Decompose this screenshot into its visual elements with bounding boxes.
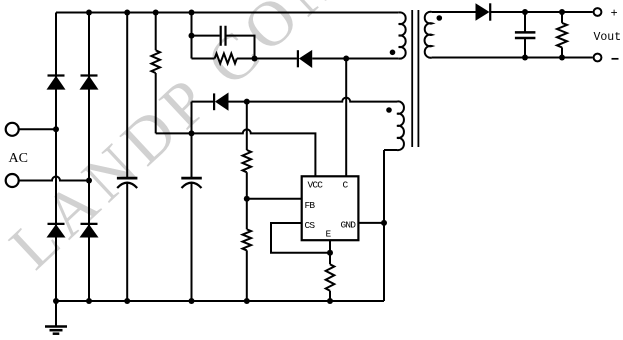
svg-text:AC: AC xyxy=(9,151,28,166)
svg-text:GND: GND xyxy=(341,220,357,231)
wire output cap leads xyxy=(524,12,526,58)
capacitor vcc C3 xyxy=(181,178,202,188)
terminal Vout plus xyxy=(594,8,602,16)
svg-text:FB: FB xyxy=(305,200,316,211)
wire startup resistor branch xyxy=(155,13,157,134)
resistor output load R6 xyxy=(557,23,567,48)
wire aux return vertical xyxy=(383,150,385,301)
terminal AC neutral xyxy=(6,174,19,187)
svg-text:Vout: Vout xyxy=(594,31,622,44)
wire aux winding top with hop xyxy=(229,98,398,102)
capacitor output C4 xyxy=(515,32,536,38)
wire vcc diode cathode to junction xyxy=(192,102,214,134)
node output top junctions xyxy=(522,9,565,15)
wire feedback divider branch xyxy=(246,102,248,301)
wire bridge right leg xyxy=(88,13,90,302)
svg-text:+: + xyxy=(611,7,618,21)
wire FB pin xyxy=(247,198,302,200)
diode vcc rectifier D6 xyxy=(214,93,228,111)
transformer T1 secondary winding xyxy=(425,12,432,58)
resistor startup R1 xyxy=(151,50,160,73)
wire AC live input xyxy=(18,128,56,130)
label minus xyxy=(612,58,619,60)
wire secondary top to output xyxy=(432,11,593,13)
diode bridge D2 xyxy=(80,76,99,90)
node emitter xyxy=(327,250,333,256)
resistor snubber R2 xyxy=(215,54,237,64)
wire E pin and sense resistor leads xyxy=(329,240,331,301)
node bottom rail junctions xyxy=(53,298,333,304)
wire aux winding bottom xyxy=(384,149,397,151)
wire top rail xyxy=(56,12,399,14)
wire snubber resistor row xyxy=(192,58,255,60)
terminal Vout minus xyxy=(594,54,602,62)
svg-text:E: E xyxy=(326,229,332,240)
transformer T1 secondary polarity dot xyxy=(437,15,443,21)
wire AC neutral input with hop xyxy=(18,177,89,181)
node switch drain xyxy=(343,56,349,62)
capacitor snubber C1 xyxy=(221,26,226,46)
ground symbol xyxy=(45,301,67,334)
wire vcc cap branch xyxy=(191,133,193,301)
wire collector line xyxy=(345,59,347,177)
diode bridge D4 xyxy=(80,224,99,238)
op-amp U1 controller box xyxy=(302,176,359,240)
capacitor bulk C2 xyxy=(117,178,137,188)
node snubber split xyxy=(189,33,195,39)
wire snubber left edge xyxy=(191,13,193,59)
diode clamp D5 xyxy=(298,50,312,68)
resistor current sense R5 xyxy=(326,264,335,291)
diode output rectifier D7 xyxy=(476,3,491,20)
node vcc rail xyxy=(189,130,195,136)
wire CS loop xyxy=(271,223,330,253)
transformer T1 core xyxy=(412,10,418,147)
resistor divider upper R3 xyxy=(243,150,252,172)
node AC neutral xyxy=(86,178,92,184)
transformer T1 auxiliary winding xyxy=(397,101,404,150)
node vcc diode anode xyxy=(244,99,250,105)
transformer T1 primary winding xyxy=(399,12,406,58)
node GND pin xyxy=(381,220,387,226)
diode bridge D3 xyxy=(47,224,66,238)
terminal AC live xyxy=(6,123,19,136)
node output bottom junctions xyxy=(522,55,565,61)
wire output resistor leads xyxy=(561,12,563,58)
node FB tap xyxy=(244,196,250,202)
diode bridge D1 xyxy=(47,76,66,90)
wire VCC rail with hop xyxy=(156,129,316,176)
node AC live xyxy=(53,126,59,132)
wire bulk cap branch xyxy=(126,13,128,302)
wire GND pin xyxy=(358,222,384,224)
wire clamp diode row xyxy=(255,58,399,60)
svg-text:C: C xyxy=(343,180,349,191)
svg-text:VCC: VCC xyxy=(308,180,324,191)
node snubber output xyxy=(252,56,258,62)
svg-text:CS: CS xyxy=(305,220,316,231)
wire bridge left leg xyxy=(55,13,57,302)
wire bottom ground rail xyxy=(56,300,384,302)
resistor divider lower R4 xyxy=(243,229,252,250)
transformer T1 primary polarity dot xyxy=(390,50,396,56)
node top rail junctions xyxy=(86,10,195,16)
wire snubber cap row xyxy=(192,36,255,59)
wire secondary bottom to output xyxy=(432,57,593,59)
transformer T1 auxiliary polarity dot xyxy=(386,107,392,113)
